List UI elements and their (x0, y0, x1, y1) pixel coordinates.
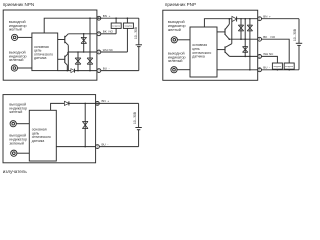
svg-text:BK NO: BK NO (103, 30, 114, 34)
terminal 3 BU (97, 69, 101, 73)
node Q2 emitter on BU (67, 70, 69, 72)
wire: load2 to WH NC (126, 28, 128, 52)
node Z2 bottom (77, 70, 79, 72)
svg-text:BK NO: BK NO (263, 35, 276, 39)
emitter block (3, 95, 142, 174)
wire: Q1 emitter to BN (228, 19, 230, 24)
transistor Q2 (NPN, NC output) (58, 58, 65, 60)
wire: BK NO internal (68, 33, 97, 35)
wire HL2 to main circuit (18, 67, 32, 69)
svg-text:нагрузка: нагрузка (112, 26, 121, 28)
wire: Q2 emitter down (66, 65, 68, 71)
wire: BU external (99, 146, 138, 148)
wire HL2 to main circuit (177, 69, 190, 71)
svg-text:нагрузка: нагрузка (124, 26, 133, 28)
svg-text:выходнойиндикаторзеленый: выходнойиндикаторзеленый (9, 134, 27, 146)
sensor body (outer box) PNP (163, 10, 258, 80)
wire: BN external to battery (262, 18, 300, 20)
wire: right rail to battery (138, 103, 140, 127)
wire: Q2 emitter supply rail (231, 19, 233, 44)
wire: BK NO external to load2 (262, 39, 290, 63)
node Z2 top (244, 18, 246, 20)
zener Z1 (BN to BK) (240, 19, 242, 39)
zener Z1 (BK to WH) (83, 34, 85, 52)
svg-text:10...30В: 10...30В (134, 27, 138, 39)
svg-text:BN +: BN + (263, 15, 271, 19)
node Z3 top (249, 18, 251, 20)
node Z3 bottom (89, 70, 91, 72)
node: BN internal junction (89, 17, 91, 19)
svg-text:выходнойиндикаторжелтый: выходнойиндикаторжелтый (168, 20, 186, 32)
LED indicator HL1 (yellow) (12, 34, 18, 40)
wire: WH NC internal (230, 55, 258, 57)
load resistor R1 (нагрузка) (111, 23, 121, 28)
node Q1 collector on BK (229, 38, 231, 40)
svg-text:приемник PNP: приемник PNP (165, 2, 196, 7)
TVS suppressor Z3 across supply (89, 18, 91, 70)
PNP receiver block (163, 2, 302, 80)
node: transistor supply tap (229, 18, 231, 20)
wire: WH NC internal (68, 51, 97, 53)
diode VD1 (reverse protection, BU line) (71, 69, 75, 73)
battery GB1 (296, 42, 302, 44)
svg-text:WH NC: WH NC (103, 48, 114, 52)
wire HL2 to main circuit (17, 152, 29, 154)
svg-text:10...30В: 10...30В (293, 29, 297, 41)
svg-text:выходнойиндикаторжелтый: выходнойиндикаторжелтый (9, 102, 27, 114)
wire: BU internal (56, 146, 95, 148)
main circuit box (основная цепь оптического датчика) (29, 110, 56, 161)
svg-text:WH NC: WH NC (263, 52, 274, 56)
wire: BU external (101, 70, 139, 72)
svg-text:основнаяцепьоптическогодатчика: основнаяцепьоптическогодатчика (32, 128, 51, 143)
wire: BU internal (217, 69, 258, 71)
LED indicator HL2 (green) (11, 65, 17, 71)
wire: load2 to BU (288, 68, 290, 71)
wire: load1 to BU (276, 68, 278, 71)
transistor Q1 (NPN, NO output) (58, 39, 65, 41)
svg-text:основнаяцепьоптическогодатчика: основнаяцепьоптическогодатчика (192, 43, 211, 58)
load resistor R1 (нагрузка) (272, 63, 282, 69)
terminal 4 BK (258, 37, 262, 41)
terminal 3 BU (96, 145, 100, 149)
wire: BK NO external (101, 33, 116, 35)
main circuit box (основная цепь оптического датчика) (190, 27, 217, 77)
wire: right rail to battery (138, 18, 140, 45)
node load1 top (115, 17, 117, 19)
terminal 4 BK (97, 32, 101, 36)
load resistor R2 (нагрузка) (123, 23, 133, 28)
terminal 1 BN (258, 17, 262, 21)
terminal 2 WH (97, 50, 101, 54)
svg-text:выходнойиндикаторзеленый: выходнойиндикаторзеленый (9, 51, 27, 63)
svg-text:выходнойиндикаторжелтый: выходнойиндикаторжелтый (9, 20, 27, 32)
svg-text:выходнойиндикаторзеленый: выходнойиндикаторзеленый (168, 52, 186, 64)
LED indicator HL2 (green) (171, 67, 177, 73)
zener Z2 (WH to BU) (77, 52, 79, 71)
node Z3 on WH (249, 56, 251, 58)
wire HL1 to main circuit (177, 39, 190, 41)
svg-text:BN +: BN + (102, 99, 110, 103)
node load2 top (127, 17, 129, 19)
main circuit box (основная цепь оптического датчика) (32, 33, 58, 71)
svg-text:BU -: BU - (103, 66, 110, 70)
sensor body (outer box) NPN (3, 10, 97, 80)
wire: load1 to BK NO (115, 28, 117, 33)
svg-text:приемник NPN: приемник NPN (3, 2, 34, 7)
diode VD1 (reverse protection, BN line) (232, 16, 237, 21)
terminal 1 BN (97, 16, 101, 20)
node Z1 top (240, 18, 242, 20)
svg-text:основнаяцепьоптическогодатчика: основнаяцепьоптическогодатчика (34, 45, 53, 60)
battery GB1 (136, 44, 142, 46)
node Z1 top (84, 103, 86, 105)
wire HL1 to main circuit (16, 123, 29, 125)
wire: power tap from main circuit to BN rail (51, 103, 139, 110)
wire: BU external (262, 69, 300, 71)
TVS suppressor Z1 across supply (84, 103, 86, 146)
wire: BK NO internal (229, 38, 257, 40)
terminal 3 BU (258, 68, 262, 72)
load resistor R2 (нагрузка) (284, 63, 294, 69)
transistor Q1 (PNP, NO output) (217, 31, 225, 33)
node Z1 bottom (84, 146, 86, 148)
svg-text:излучатель: излучатель (3, 169, 28, 174)
node Z1 bottom (83, 51, 85, 53)
LED indicator HL1 (yellow) (171, 37, 177, 43)
zener Z2 (BN to WH, symbol between BK and WH) (244, 19, 246, 57)
wire: BU internal (58, 70, 97, 72)
node load1 on BU (277, 69, 279, 71)
wire: power tap from main circuit to BN rail (204, 19, 257, 27)
svg-text:нагрузка: нагрузка (285, 66, 294, 68)
wire HL1 to main circuit (18, 36, 32, 38)
node on BK wire (83, 33, 85, 35)
svg-text:BU -: BU - (263, 66, 270, 70)
node Z3 bottom (249, 69, 251, 71)
terminal 1 BN (96, 102, 100, 106)
NPN receiver block (3, 2, 142, 80)
terminal 2 WH (258, 55, 262, 59)
wire: WH NC external to load1 (262, 56, 278, 63)
node load2 on BU (288, 69, 290, 71)
node Z2 on BK (244, 38, 246, 40)
wire: Q1 emitter down (67, 45, 69, 70)
wire: load1 from BN rail (115, 18, 117, 23)
svg-text:10...30В: 10...30В (133, 112, 137, 124)
svg-text:нагрузка: нагрузка (273, 66, 282, 68)
TVS suppressor Z3 across supply (249, 19, 251, 70)
node Z1 bottom (240, 38, 242, 40)
transistor Q2 (PNP, NC output) (217, 49, 225, 51)
wire: load2 from BN rail (126, 18, 128, 23)
svg-text:BU -: BU - (102, 142, 109, 146)
sensor body (outer box) emitter (3, 95, 96, 163)
node on WH wire (77, 51, 79, 53)
wire: power tap from main circuit to BN rail (44, 18, 139, 33)
LED indicator HL1 (yellow) (10, 121, 16, 127)
svg-text:BN +: BN + (103, 14, 111, 18)
node Z2 bottom (244, 56, 246, 58)
wire: WH NC external (101, 51, 128, 53)
wire: right rail to battery (298, 19, 300, 44)
diode VD1 (reverse protection, BN line) (64, 101, 69, 105)
LED indicator HL2 (green) (11, 150, 17, 156)
battery GB1 (135, 127, 141, 129)
